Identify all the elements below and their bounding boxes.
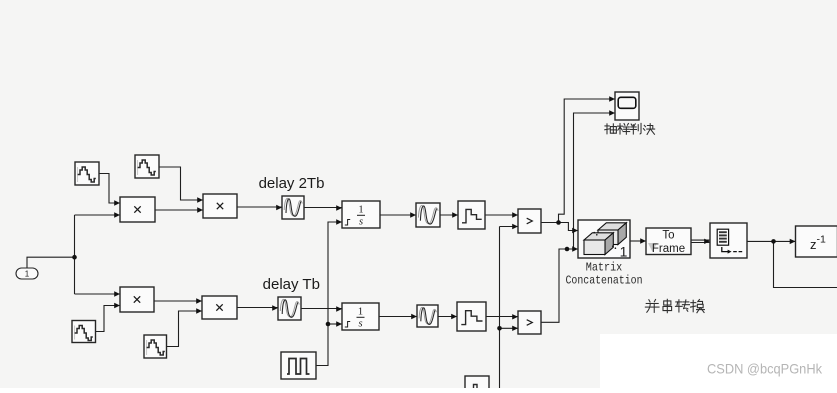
svg-text:-1: -1	[817, 234, 826, 246]
svg-text:Matrix: Matrix	[586, 261, 623, 275]
svg-text:1: 1	[358, 307, 363, 318]
svg-text:s: s	[358, 319, 362, 330]
svg-text:CSDN @bcqPGnHk: CSDN @bcqPGnHk	[707, 361, 823, 377]
svg-text:Frame: Frame	[652, 243, 685, 255]
svg-text:1: 1	[25, 270, 30, 279]
svg-text:delay Tb: delay Tb	[263, 276, 320, 293]
svg-text:Concatenation: Concatenation	[566, 274, 643, 288]
svg-text:s: s	[359, 217, 363, 228]
svg-text:delay 2Tb: delay 2Tb	[259, 175, 325, 192]
svg-text:1: 1	[620, 244, 628, 260]
svg-text:To: To	[662, 230, 674, 242]
svg-text:1: 1	[358, 205, 363, 216]
